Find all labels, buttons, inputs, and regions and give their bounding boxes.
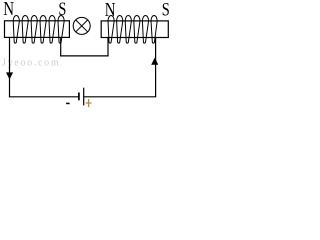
wire: right outer lead down [155,38,157,97]
battery positive plate (long thin) [83,88,85,106]
lamp (bulb symbol) [73,17,90,34]
label + (positive) [86,99,92,107]
current arrow (down) on left wire [6,72,13,79]
svg-text:N: N [3,0,14,20]
wire: bottom right segment [84,96,156,98]
svg-text:S: S [162,1,170,21]
svg-text:Jyeoo.com: Jyeoo.com [2,58,60,69]
wire: left outer lead down [9,37,11,96]
current arrow (up) on right wire [151,58,158,65]
wire: left inner lead down [60,37,62,56]
coil winding (left coil, 6 turns) [13,15,64,43]
iron core (left coil) [5,21,70,38]
label - (negative) [66,103,70,105]
iron core (right coil) [101,21,168,38]
wire: middle shelf connecting the two coils [60,55,109,57]
svg-text:S: S [58,0,66,20]
coil winding (right coil, 6 turns) [108,15,157,43]
battery negative plate (short thick) [78,93,80,101]
wire: right inner lead down [107,38,109,56]
wire: bottom left segment [9,96,79,98]
